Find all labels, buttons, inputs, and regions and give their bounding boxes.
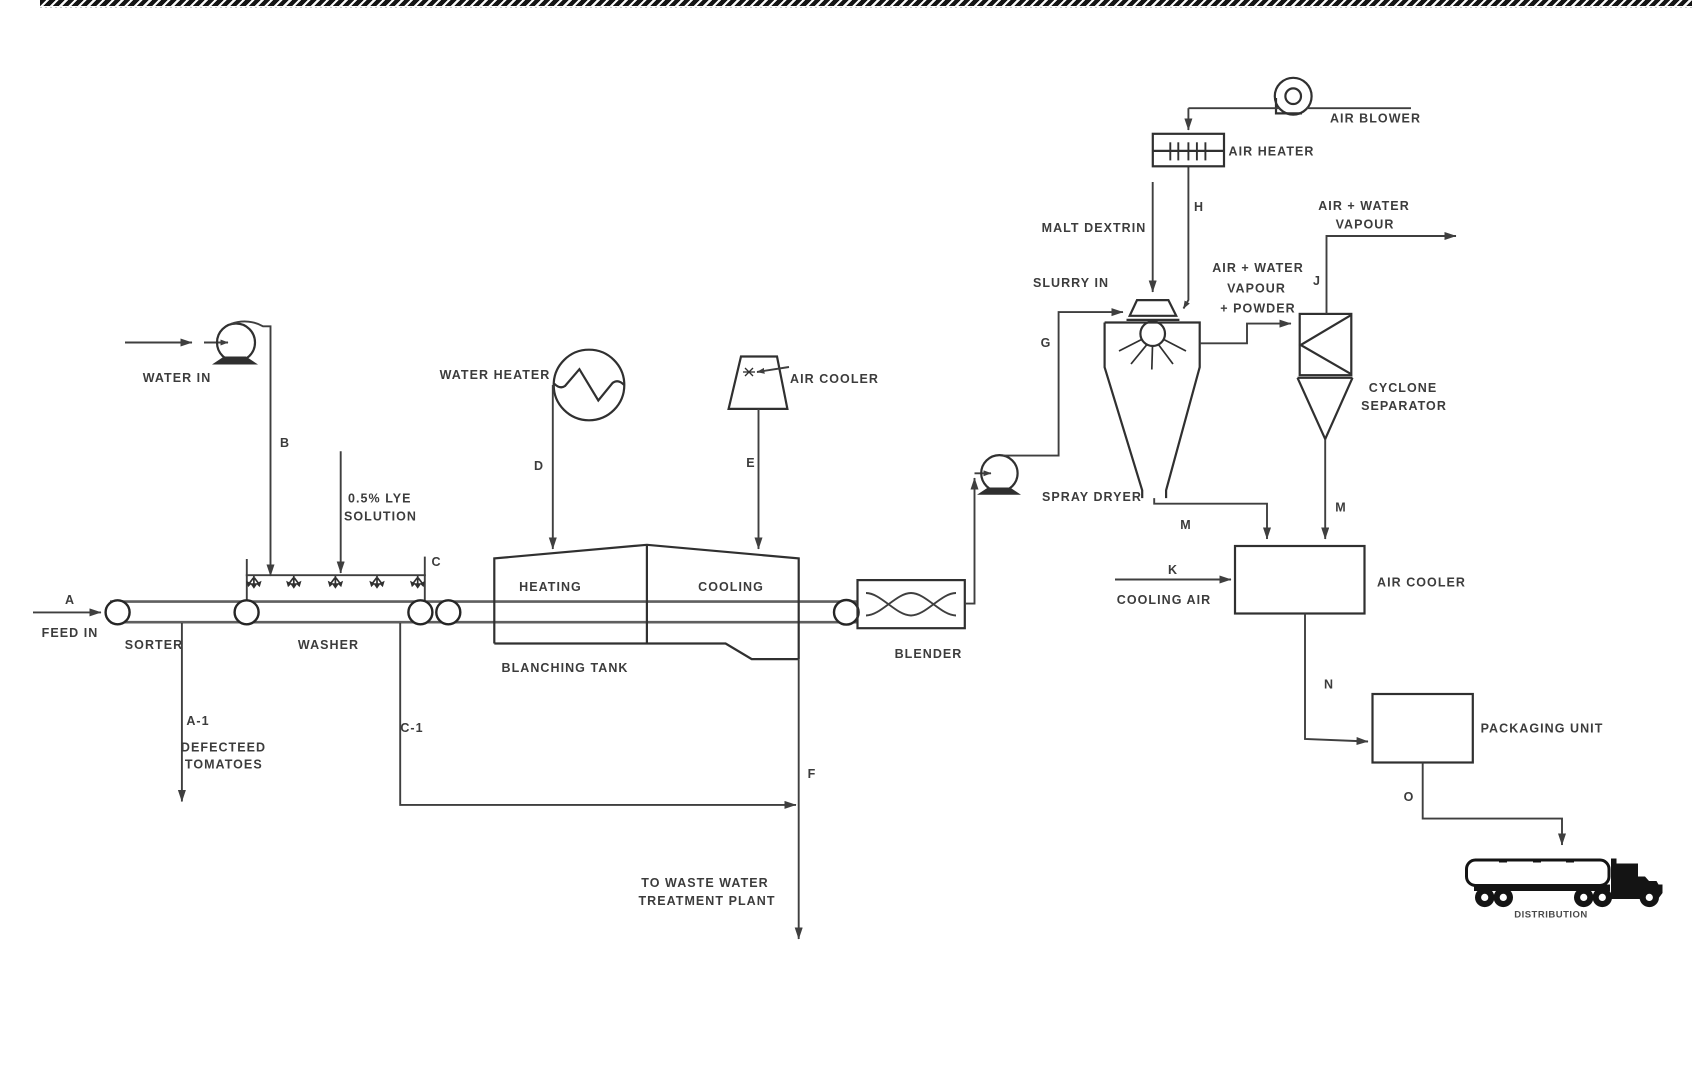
- svg-text:SOLUTION: SOLUTION: [344, 510, 417, 524]
- svg-text:VAPOUR: VAPOUR: [1336, 218, 1395, 232]
- svg-text:COOLING AIR: COOLING AIR: [1117, 593, 1211, 607]
- svg-text:A-1: A-1: [186, 714, 209, 728]
- svg-text:AIR COOLER: AIR COOLER: [790, 372, 879, 386]
- svg-text:AIR + WATER: AIR + WATER: [1318, 199, 1410, 213]
- svg-text:J: J: [1313, 274, 1321, 288]
- svg-text:F: F: [808, 767, 817, 781]
- svg-text:MALT DEXTRIN: MALT DEXTRIN: [1042, 221, 1147, 235]
- svg-text:+ POWDER: + POWDER: [1220, 302, 1295, 316]
- svg-text:HEATING: HEATING: [519, 580, 582, 594]
- svg-text:BLENDER: BLENDER: [895, 647, 963, 661]
- svg-text:SPRAY DRYER: SPRAY DRYER: [1042, 490, 1142, 504]
- svg-text:M: M: [1180, 518, 1191, 532]
- svg-text:DISTRIBUTION: DISTRIBUTION: [1514, 910, 1588, 921]
- svg-text:WATER HEATER: WATER HEATER: [440, 368, 551, 382]
- svg-text:AIR COOLER: AIR COOLER: [1377, 576, 1466, 590]
- svg-text:SEPARATOR: SEPARATOR: [1361, 399, 1447, 413]
- svg-text:B: B: [280, 436, 290, 450]
- svg-text:AIR HEATER: AIR HEATER: [1229, 145, 1315, 159]
- svg-text:BLANCHING TANK: BLANCHING TANK: [502, 661, 629, 675]
- svg-text:N: N: [1324, 678, 1334, 692]
- svg-text:COOLING: COOLING: [698, 580, 764, 594]
- svg-text:AIR + WATER: AIR + WATER: [1212, 261, 1304, 275]
- svg-text:H: H: [1194, 200, 1204, 214]
- svg-text:DEFECTEED: DEFECTEED: [181, 741, 266, 755]
- svg-text:TREATMENT PLANT: TREATMENT PLANT: [638, 894, 775, 908]
- svg-text:M: M: [1335, 501, 1346, 515]
- svg-text:C: C: [431, 555, 441, 569]
- svg-text:E: E: [746, 456, 755, 470]
- svg-text:AIR BLOWER: AIR BLOWER: [1330, 112, 1421, 126]
- svg-text:A: A: [65, 593, 75, 607]
- svg-text:0.5% LYE: 0.5% LYE: [348, 492, 412, 506]
- svg-text:TOMATOES: TOMATOES: [185, 758, 263, 772]
- svg-text:PACKAGING UNIT: PACKAGING UNIT: [1481, 722, 1604, 736]
- svg-text:G: G: [1041, 336, 1052, 350]
- svg-text:WATER IN: WATER IN: [143, 371, 212, 385]
- svg-text:TO WASTE WATER: TO WASTE WATER: [641, 876, 768, 890]
- svg-text:FEED IN: FEED IN: [42, 626, 99, 640]
- svg-text:SORTER: SORTER: [125, 638, 183, 652]
- svg-text:D: D: [534, 459, 544, 473]
- svg-text:WASHER: WASHER: [298, 638, 359, 652]
- svg-text:O: O: [1404, 790, 1415, 804]
- svg-text:K: K: [1168, 563, 1178, 577]
- svg-text:SLURRY IN: SLURRY IN: [1033, 276, 1109, 290]
- svg-text:CYCLONE: CYCLONE: [1369, 381, 1437, 395]
- svg-text:VAPOUR: VAPOUR: [1227, 282, 1286, 296]
- svg-text:C-1: C-1: [400, 721, 423, 735]
